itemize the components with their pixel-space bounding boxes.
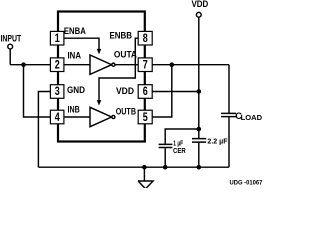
wire load drop xyxy=(228,65,230,113)
node INPUT junction xyxy=(21,62,26,67)
wire load cap to rail xyxy=(228,117,230,167)
wire buffer A output to pin 7 xyxy=(115,64,138,66)
wire VDD vertical xyxy=(198,17,200,138)
svg-text:1 µF: 1 µF xyxy=(173,140,183,147)
node rail ground junction xyxy=(142,165,147,170)
capacitor 2.2uF xyxy=(192,139,206,143)
svg-text:OUTB: OUTB xyxy=(116,107,137,117)
wire OUT down to pin 5 xyxy=(152,65,172,117)
node rail 1uF junction xyxy=(163,165,168,170)
svg-text:5: 5 xyxy=(143,112,148,124)
pin 4 box xyxy=(50,110,64,124)
pin 3 box xyxy=(50,85,64,99)
IC body U1 xyxy=(58,12,145,142)
svg-text:6: 6 xyxy=(143,86,148,98)
svg-text:7: 7 xyxy=(143,59,148,71)
buffer A xyxy=(90,55,112,74)
ground xyxy=(138,167,153,189)
buffer A bubble xyxy=(112,63,115,66)
wire ENBB pin8 to buffer B enable xyxy=(99,38,138,100)
pin 2 box xyxy=(50,58,64,72)
wire 1uF to rail xyxy=(164,148,166,167)
wire 2.2uF to rail xyxy=(198,143,200,168)
svg-text:ENBA: ENBA xyxy=(64,26,86,36)
wire INA pin2 to buffer A xyxy=(64,64,90,66)
buffer B bubble xyxy=(112,115,115,118)
pin 8 box xyxy=(138,31,152,45)
pin 6 box xyxy=(138,85,152,99)
buffer B xyxy=(90,107,112,126)
terminal INPUT xyxy=(8,44,13,49)
wire ground rail xyxy=(38,166,229,168)
svg-text:VDD: VDD xyxy=(192,0,209,9)
node OUT junction xyxy=(170,62,175,67)
wire INB pin4 to buffer B xyxy=(64,116,90,118)
wire INPUT horizontal to pin 2 xyxy=(10,64,50,66)
svg-text:2: 2 xyxy=(55,59,60,71)
svg-text:VDD: VDD xyxy=(116,86,134,96)
wire ENBA pin1 to buffer A enable xyxy=(64,38,99,49)
svg-text:CER: CER xyxy=(173,148,186,155)
wire GND pin3 to ground rail xyxy=(38,92,50,168)
node VDD pin6 junction xyxy=(197,89,202,94)
wire INPUT vertical xyxy=(9,49,11,64)
wire VDD branch to 1uF xyxy=(165,129,199,144)
wire INPUT branch to pin 4 xyxy=(24,65,51,117)
svg-text:1: 1 xyxy=(55,33,60,45)
node rail 2.2uF junction xyxy=(197,165,202,170)
svg-text:4: 4 xyxy=(55,112,60,124)
terminal VDD xyxy=(196,12,201,17)
pin 1 box xyxy=(50,31,64,45)
buffer B enable arrowhead xyxy=(97,100,102,105)
svg-text:3: 3 xyxy=(55,86,60,98)
buffer A enable arrowhead xyxy=(97,49,102,54)
svg-text:8: 8 xyxy=(143,33,148,45)
node VDD cap junction xyxy=(197,127,202,132)
capacitor CLOAD xyxy=(221,113,236,116)
svg-text:INPUT: INPUT xyxy=(1,34,22,44)
wire pin7 to load xyxy=(152,64,229,66)
pin 5 box xyxy=(138,110,152,124)
wire pin6 to VDD line xyxy=(152,91,199,93)
svg-text:INA: INA xyxy=(68,51,82,61)
svg-text:LOAD: LOAD xyxy=(241,115,262,122)
svg-text:2.2 µF: 2.2 µF xyxy=(207,139,228,146)
pin 7 box xyxy=(138,58,152,72)
capacitor 1uF CER xyxy=(159,144,173,147)
svg-text:UDG -01067: UDG -01067 xyxy=(230,180,263,187)
svg-text:INB: INB xyxy=(68,104,81,114)
svg-text:OUTA: OUTA xyxy=(114,49,138,59)
svg-text:ENBB: ENBB xyxy=(110,31,133,41)
svg-text:GND: GND xyxy=(67,85,85,95)
